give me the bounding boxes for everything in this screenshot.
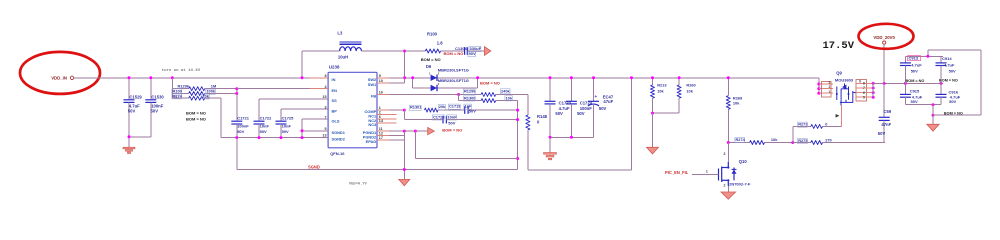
svg-text:2: 2 (724, 183, 726, 187)
inductor L3 10uH (340, 47, 362, 51)
svg-text:10k: 10k (202, 93, 209, 98)
wire R148 bottom loop (527, 130, 529, 170)
svg-text:17: 17 (379, 136, 383, 140)
pin 4 EN (310, 88, 328, 90)
pin circle VDD_IN (70, 76, 73, 79)
resistor R275 270 (793, 142, 811, 144)
svg-text:R874: R874 (173, 93, 183, 98)
svg-text:BOM = NO: BOM = NO (939, 79, 958, 83)
pin 11 PGND1 (377, 130, 389, 132)
capacitor C1530 (150, 78, 152, 100)
svg-text:R1299: R1299 (464, 89, 476, 94)
svg-text:BOM = NO: BOM = NO (444, 51, 464, 56)
capacitor C1723 4.7uF (549, 78, 551, 102)
wire main input rail (74, 77, 819, 79)
svg-text:10uH: 10uH (338, 54, 348, 59)
wire SGND1 line (302, 130, 328, 132)
svg-text:5: 5 (863, 95, 865, 99)
wire SS line (259, 98, 328, 100)
svg-text:47uF: 47uF (603, 99, 613, 104)
svg-text:SGND: SGND (308, 165, 320, 170)
pin 12 PGND2 (377, 135, 389, 137)
resistor R1301 20k (409, 105, 421, 110)
svg-text:C913: C913 (909, 56, 919, 61)
wire SW1 stub to node (389, 82, 405, 84)
svg-text:4.7uF: 4.7uF (944, 62, 955, 67)
op-amp U238 body (QFN-16 boost controller) (328, 72, 377, 148)
svg-text:16: 16 (379, 91, 383, 95)
svg-text:SS: SS (332, 98, 338, 103)
svg-text:240k: 240k (501, 88, 510, 93)
svg-text:3: 3 (828, 81, 830, 85)
svg-text:R1301: R1301 (410, 105, 422, 110)
svg-text:7: 7 (863, 86, 865, 90)
svg-text:10k: 10k (686, 88, 693, 93)
wire PGND1 line (389, 130, 428, 132)
svg-text:BOM = NO: BOM = NO (480, 81, 500, 86)
resistor R213 10k (652, 78, 654, 85)
svg-text:50V: 50V (911, 69, 918, 74)
svg-text:10: 10 (379, 79, 383, 83)
svg-text:50V: 50V (949, 69, 956, 74)
svg-text:10k: 10k (771, 137, 778, 142)
svg-text:15: 15 (322, 95, 326, 99)
svg-text:R213: R213 (657, 83, 667, 88)
power ground (Q10) (727, 186, 729, 192)
svg-text:50V: 50V (448, 121, 455, 126)
red highlight ellipse around VDD_IN (20, 52, 100, 94)
svg-text:C69: C69 (884, 109, 892, 114)
marker (gate net tie) (836, 114, 840, 118)
wire SGND bus (237, 169, 518, 171)
diode (parallel, BOM NO) MBR230LSFT1G (412, 78, 414, 88)
capacitor C1721 100nF (236, 94, 238, 122)
wire pgnd drop to ground (403, 131, 405, 179)
svg-text:10nF: 10nF (448, 114, 458, 119)
resistor R273 0 (792, 126, 794, 142)
capacitor C913 4.7uF (904, 56, 906, 63)
svg-text:R148: R148 (537, 114, 548, 119)
diode D6 MBR230LSFT1G (431, 75, 437, 81)
svg-text:47nF: 47nF (881, 122, 891, 127)
svg-text:C914: C914 (942, 56, 952, 61)
capacitor C69 47nF (883, 83, 885, 117)
wire PIC_EN_FIL gate line (692, 174, 719, 176)
transistor Q9 MOU3603 (818, 78, 820, 93)
svg-text:3: 3 (724, 152, 726, 156)
svg-text:BOM = NO: BOM = NO (421, 57, 441, 62)
capacitor C916 4.7uF (940, 83, 942, 94)
capacitor C1725 10nF (276, 120, 287, 122)
wire pgnd to comp-gnd (414, 131, 416, 158)
svg-text:EPAD: EPAD (366, 139, 377, 144)
pin 2 NC1 (377, 113, 397, 115)
svg-text:R273: R273 (798, 122, 808, 127)
ground (mid caps) (549, 137, 551, 152)
wire PGND2 line (389, 135, 404, 137)
pin 6 NC2 (377, 118, 397, 120)
resistor R1296 1M (172, 88, 188, 90)
svg-text:17.5V: 17.5V (823, 40, 855, 52)
svg-text:0: 0 (825, 121, 827, 126)
svg-text:VDD_IN: VDD_IN (51, 75, 67, 80)
port arrow (snubber out) (484, 47, 490, 56)
svg-text:C1530: C1530 (151, 94, 164, 99)
svg-text:C1720: C1720 (433, 114, 444, 119)
svg-text:1.8: 1.8 (437, 41, 443, 46)
svg-text:MBR230LSFT1G: MBR230LSFT1G (438, 78, 469, 83)
capacitor C1719 1nF (464, 106, 466, 114)
svg-text:50V: 50V (555, 111, 563, 116)
pin 10 SW1 (377, 82, 389, 84)
svg-text:50V: 50V (949, 99, 956, 104)
svg-text:MOU3603: MOU3603 (835, 77, 854, 82)
wire EN vertical link (236, 89, 238, 94)
svg-text:C1722: C1722 (260, 115, 273, 120)
wire R273 to Q9 gate (840, 106, 842, 127)
pin 9 SW2 (377, 77, 389, 79)
wire trio left riser (171, 78, 173, 98)
junction dots input rail (128, 76, 131, 79)
wire EN line (237, 88, 328, 90)
svg-text:10k: 10k (506, 95, 513, 100)
svg-text:PIC_EN_FIL: PIC_EN_FIL (665, 170, 689, 175)
svg-text:8: 8 (863, 82, 865, 86)
svg-text:OLS: OLS (332, 118, 340, 123)
capacitor C915 4.7uF (904, 83, 906, 94)
wire Q9 gate drop (840, 102, 842, 105)
resistor R269 10k (727, 78, 729, 96)
resistor R260 10k (678, 78, 680, 85)
svg-text:FB: FB (371, 94, 376, 99)
svg-text:50V: 50V (237, 129, 244, 134)
svg-text:10nF: 10nF (260, 123, 270, 128)
svg-text:C915: C915 (910, 88, 920, 93)
wire SGND2 rail (221, 137, 328, 139)
capacitor C1720 10nF (442, 116, 444, 124)
wire snubber line (405, 50, 426, 52)
svg-text:VDD_20V0: VDD_20V0 (873, 35, 895, 40)
svg-text:C1719: C1719 (449, 104, 461, 109)
svg-text:BOM = NO: BOM = NO (442, 127, 462, 132)
svg-text:270: 270 (825, 138, 832, 143)
pin 5 SGND1 (310, 130, 328, 132)
port arrow (PGND) (428, 128, 435, 135)
transistor Q10 2N7002-7-F (727, 143, 729, 162)
wire comp gnd vertical (517, 101, 519, 170)
wire R213/R260 bottoms (653, 112, 680, 114)
svg-text:MBR230LSFT1G: MBR230LSFT1G (438, 68, 469, 73)
resistor R1299 240k (459, 94, 482, 96)
svg-text:2N7002-7-F: 2N7002-7-F (729, 181, 751, 186)
svg-text:7: 7 (324, 115, 326, 119)
svg-text:SW1: SW1 (368, 82, 377, 87)
wire R274 line (728, 142, 749, 144)
wire bank lower rail (905, 104, 941, 106)
wire OLS line (302, 118, 328, 120)
svg-text:50V: 50V (599, 106, 607, 111)
pin 7 OLS (310, 118, 328, 120)
wire C1720 branch (403, 110, 405, 120)
resistor R100 1.8 (snubber) (425, 49, 440, 53)
wire COMP line (389, 109, 404, 111)
wire bank top rail (gnd) (905, 55, 943, 57)
pin 13 SGND2 (310, 137, 328, 139)
svg-text:50V: 50V (469, 109, 476, 114)
pin 15 SS (310, 98, 328, 100)
svg-text:100nF: 100nF (237, 123, 249, 128)
red highlight ellipse around VDD_20V0 (859, 24, 914, 49)
svg-text:R275: R275 (798, 138, 808, 143)
svg-text:L3: L3 (337, 31, 343, 36)
svg-text:VEb=0.7V: VEb=0.7V (349, 182, 367, 187)
svg-text:R274: R274 (736, 137, 746, 142)
svg-text:SGND2: SGND2 (332, 137, 346, 142)
resistor R148 0 (526, 115, 530, 130)
capacitor C1722 10nF (254, 120, 265, 122)
Q9 PFET symbol (837, 87, 856, 103)
svg-text:6: 6 (863, 91, 865, 95)
svg-text:R100: R100 (427, 32, 438, 37)
svg-text:turn on at 14.4V: turn on at 14.4V (162, 68, 201, 73)
svg-text:50V: 50V (260, 129, 267, 134)
svg-text:C1725: C1725 (282, 115, 295, 120)
svg-text:5: 5 (324, 127, 326, 131)
svg-text:R260: R260 (686, 83, 695, 88)
svg-text:C1529: C1529 (129, 94, 142, 99)
capacitor C1306 330uF (464, 47, 466, 55)
svg-text:50V: 50V (128, 108, 136, 113)
wire Q9 output line (873, 82, 943, 84)
wire SGND drop (236, 138, 238, 170)
svg-text:NC3: NC3 (368, 122, 377, 127)
svg-text:13: 13 (322, 134, 326, 138)
svg-text:U238: U238 (329, 65, 340, 70)
capacitor C914 4.7uF (940, 56, 942, 63)
svg-text:10nF: 10nF (282, 123, 292, 128)
svg-text:QFN-16: QFN-16 (330, 151, 345, 156)
ground (input caps) (123, 147, 135, 153)
svg-text:50V: 50V (577, 111, 585, 116)
svg-text:4.7uF: 4.7uF (911, 62, 922, 67)
capacitor C1724 100nF (570, 78, 572, 102)
svg-text:BOM = NO: BOM = NO (186, 110, 206, 115)
resistor R274 10k (750, 141, 765, 145)
power ground (R213/R260) (647, 147, 659, 154)
svg-text:BOM = NO: BOM = NO (186, 116, 206, 121)
svg-text:3: 3 (324, 105, 326, 109)
pin 8 IN (310, 77, 328, 79)
pin 16 FB (377, 94, 389, 96)
resistor R100 100k (172, 93, 188, 95)
wire EPAD line (389, 139, 404, 141)
svg-text:11: 11 (379, 127, 383, 131)
svg-text:BP: BP (332, 108, 338, 113)
svg-text:50V: 50V (878, 131, 886, 136)
pin 17 EPAD (377, 139, 389, 141)
svg-text:C1723: C1723 (559, 101, 572, 106)
wire Q9 drain vertical (872, 83, 874, 97)
power ground (cap bank) (932, 115, 934, 124)
pin 14 NC3 (377, 122, 397, 124)
svg-text:8: 8 (324, 74, 326, 78)
svg-text:R1300: R1300 (464, 95, 475, 100)
net label VDD_20V0 (883, 44, 885, 83)
wire R1299 to R148 (527, 95, 529, 116)
svg-text:BOM = NO: BOM = NO (906, 79, 925, 83)
wire FB line (389, 94, 459, 96)
wire riser to inductor (301, 51, 303, 78)
svg-text:C1721: C1721 (237, 115, 250, 120)
svg-text:1: 1 (828, 90, 830, 94)
wire SW node vertical (404, 51, 406, 83)
pin 3 BP (310, 108, 328, 110)
svg-text:SGND1: SGND1 (332, 130, 346, 135)
svg-text:50V: 50V (282, 129, 289, 134)
svg-text:EN: EN (332, 88, 338, 93)
svg-text:+: + (595, 94, 598, 99)
resistor R1300 10k (458, 95, 460, 101)
svg-text:1: 1 (706, 170, 708, 174)
svg-text:Q9: Q9 (836, 70, 842, 75)
pin 1 COMP (377, 109, 389, 111)
svg-text:50V: 50V (911, 99, 918, 104)
svg-text:20k: 20k (439, 104, 446, 109)
wire mid caps bottom rail (550, 136, 594, 138)
svg-text:50V: 50V (151, 108, 159, 113)
wire SW2 stub to node (389, 77, 405, 79)
wire R874 to sgnd rail (220, 98, 222, 137)
resistor R874 10k (172, 97, 188, 99)
svg-text:9: 9 (379, 74, 381, 78)
capacitor EC47 47uF electrolytic (593, 78, 595, 102)
svg-text:2: 2 (379, 111, 381, 115)
svg-text:IN: IN (332, 77, 336, 82)
power ground (EPAD) (399, 179, 410, 185)
svg-text:10k: 10k (733, 100, 740, 105)
svg-text:D6: D6 (426, 64, 432, 69)
svg-text:10k: 10k (657, 88, 664, 93)
svg-text:50V: 50V (469, 51, 476, 56)
svg-text:2: 2 (828, 85, 830, 89)
svg-text:Q10: Q10 (739, 159, 748, 164)
capacitor C1529 (128, 78, 130, 100)
svg-text:SW2: SW2 (368, 77, 377, 82)
wire BP line (281, 108, 328, 110)
